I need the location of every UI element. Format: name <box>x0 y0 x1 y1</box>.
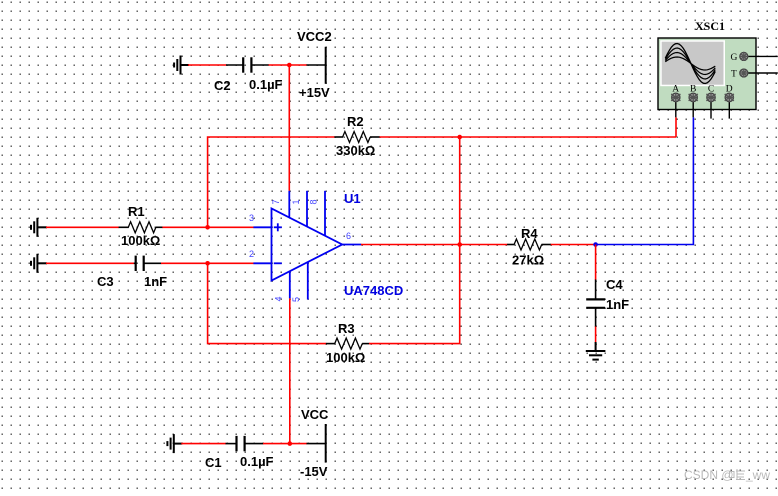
resistor R4 27k <box>507 226 551 268</box>
svg-text:C: C <box>708 85 714 95</box>
node: junction R4/C4/scope-B (blue) <box>593 242 598 247</box>
ground (C4) <box>586 342 606 360</box>
node: junction R2/output/scope-A <box>457 135 462 140</box>
svg-text:100kΩ: 100kΩ <box>326 350 365 365</box>
wire: node to scope terminal B (blue) <box>596 117 694 244</box>
svg-text:G: G <box>731 53 738 63</box>
svg-text:UA748CD: UA748CD <box>344 283 403 298</box>
resistor R2 330k <box>334 114 380 158</box>
node: junction C2/VCC2/pin7 <box>287 63 292 68</box>
svg-text:3: 3 <box>249 213 254 223</box>
wire: C1 to VCC with junction <box>263 443 307 445</box>
ground (bottom, C1 input) <box>167 434 182 453</box>
svg-text:5: 5 <box>291 297 301 302</box>
svg-text:2: 2 <box>249 249 254 259</box>
wire: up to scope terminal A <box>675 117 677 137</box>
power VCC2 +15V <box>297 29 332 100</box>
wire: R1 to pin 3 <box>162 226 253 228</box>
svg-text:7: 7 <box>271 199 281 204</box>
ground (C3 input) <box>31 254 47 273</box>
capacitor C4 1nF <box>586 277 629 327</box>
oscilloscope terminal D <box>725 85 734 119</box>
svg-text:0.1µF: 0.1µF <box>249 77 283 92</box>
svg-text:100kΩ: 100kΩ <box>121 233 160 248</box>
wire: C4 to ground <box>595 327 597 343</box>
svg-text:XSC1: XSC1 <box>695 19 725 33</box>
wire: ground to C3 <box>46 262 134 264</box>
node: junction output/right vertical <box>457 242 462 247</box>
capacitor C2 0.1uF <box>214 57 283 93</box>
svg-text:0.1µF: 0.1µF <box>240 454 274 469</box>
wire: C3 to pin 2 <box>161 262 254 264</box>
svg-text:T: T <box>731 70 737 80</box>
svg-text:U1: U1 <box>344 191 361 206</box>
wire: top ground to C2 <box>188 64 227 66</box>
wire: ground to R1 <box>46 226 119 228</box>
svg-text:_ww: _ww <box>745 468 770 482</box>
node: junction C3/pin2/feedback <box>205 261 210 266</box>
wire: R3 to right vertical up to output row <box>369 245 460 344</box>
resistor R1 100k <box>119 204 163 248</box>
svg-text:8: 8 <box>309 199 319 204</box>
wire: VCC2 junction down to op-amp pin 7 <box>288 65 290 191</box>
oscilloscope XSC1 <box>658 38 756 110</box>
wire: right vertical R2 row to output row <box>459 137 461 245</box>
op-amp U1 triangle <box>253 191 361 300</box>
svg-text:6: 6 <box>346 231 351 241</box>
svg-text:VCC: VCC <box>301 407 329 422</box>
node: junction R1/pin3/feedback <box>205 225 210 230</box>
svg-text:330kΩ: 330kΩ <box>336 143 375 158</box>
wire: pin 4 down to VCC row <box>289 298 291 443</box>
wire: R2 to right vertical <box>380 136 677 138</box>
svg-text:CSDN @: CSDN @ <box>684 468 734 482</box>
svg-text:C2: C2 <box>214 78 231 93</box>
capacitor C1 0.1uF <box>205 436 274 470</box>
oscilloscope terminal T <box>731 69 778 80</box>
svg-text:VCC2: VCC2 <box>297 29 332 44</box>
svg-text:4: 4 <box>274 296 284 301</box>
wire: ground to C1 <box>181 443 226 445</box>
svg-text:R1: R1 <box>128 204 145 219</box>
svg-text:27kΩ: 27kΩ <box>512 253 544 268</box>
oscilloscope terminal C <box>706 85 715 119</box>
power VCC -15V <box>300 407 329 479</box>
wire: pin2 node down to R3 row <box>208 263 327 343</box>
oscilloscope terminal A <box>671 85 680 118</box>
svg-text:1nF: 1nF <box>144 274 167 289</box>
node: junction C1/VCC/pin4 <box>288 441 293 446</box>
oscilloscope terminal G <box>731 52 778 63</box>
svg-text:C3: C3 <box>97 274 114 289</box>
svg-text:C4: C4 <box>606 277 623 292</box>
watermark <box>684 468 770 482</box>
wire: R4 to C4 node <box>551 244 596 246</box>
wire: op-amp output to R4 <box>361 244 508 246</box>
svg-text:R2: R2 <box>347 114 364 129</box>
svg-text:B: B <box>690 85 696 95</box>
svg-text:C1: C1 <box>205 455 222 470</box>
svg-text:D: D <box>726 85 733 95</box>
svg-text:1nF: 1nF <box>606 297 629 312</box>
oscilloscope terminal B <box>689 85 698 118</box>
wire: C2 to VCC2 with junction <box>269 64 308 66</box>
svg-text:1: 1 <box>291 199 301 204</box>
svg-text:-15V: -15V <box>300 464 328 479</box>
wire: pin3 node up to R2 row <box>208 137 335 227</box>
ground (top, C2 input) <box>174 56 189 75</box>
ground (R1 input) <box>31 218 47 237</box>
svg-text:R4: R4 <box>521 226 538 241</box>
svg-text:+15V: +15V <box>299 85 330 100</box>
wire: C4 node down <box>595 245 597 281</box>
capacitor C3 1nF <box>97 256 167 289</box>
svg-text:A: A <box>672 85 679 95</box>
svg-text:R3: R3 <box>338 321 355 336</box>
resistor R3 100k <box>326 321 370 365</box>
